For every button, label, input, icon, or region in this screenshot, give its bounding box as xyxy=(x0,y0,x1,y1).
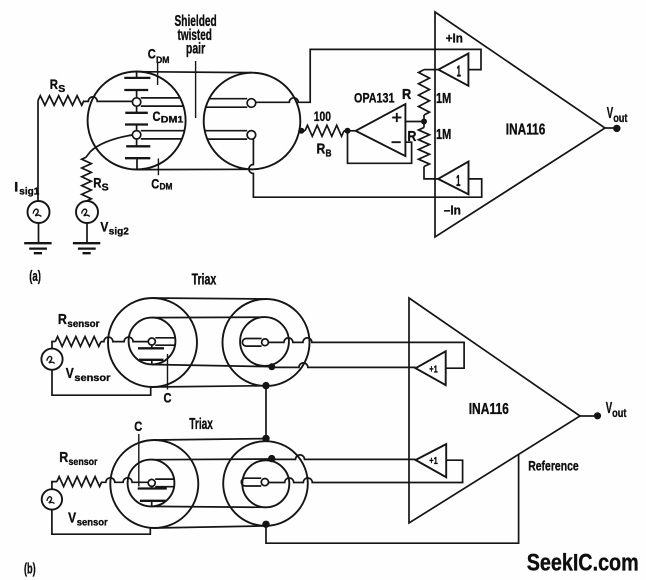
buffer amp +1 (row2) xyxy=(416,444,447,477)
svg-text:OPA131: OPA131 xyxy=(354,90,395,106)
svg-text:1M: 1M xyxy=(436,126,451,143)
svg-text:C: C xyxy=(148,45,156,61)
wire Rsensor into triax (row1) xyxy=(101,337,148,342)
svg-text:+1: +1 xyxy=(429,363,438,375)
feedback wire OPA131 output to - input xyxy=(348,131,412,164)
label CDM top with leader xyxy=(148,45,170,85)
resistor RS (series, top) xyxy=(38,76,84,106)
svg-text:1: 1 xyxy=(456,173,461,190)
op-amp OPA131 xyxy=(354,90,405,156)
capacitor C (row2) xyxy=(138,486,167,506)
ground (Vsig2) xyxy=(73,223,100,253)
Vout node (b) xyxy=(580,400,626,420)
voltage source Vsensor (row2) xyxy=(42,489,108,528)
buffer amp 1 (top) xyxy=(438,54,468,86)
svg-text:R: R xyxy=(59,449,68,466)
capacitor CDM (bottom) xyxy=(125,139,150,169)
svg-text:R: R xyxy=(93,175,101,191)
capacitor C (row1) xyxy=(138,345,164,364)
svg-text:C: C xyxy=(134,418,142,434)
wire Rsensor into triax (row2) xyxy=(102,478,148,483)
svg-text:V: V xyxy=(68,510,76,526)
junction dot outer shield bottom (row1) xyxy=(262,382,269,389)
svg-text:(b): (b) xyxy=(24,562,36,578)
label C with leader (row1) xyxy=(164,354,172,406)
svg-text:out: out xyxy=(613,111,627,125)
triax inner shield circle right (row2) xyxy=(242,460,289,507)
triax outer shield circle right (row1) xyxy=(223,299,310,386)
current source Isig1 xyxy=(14,178,49,223)
svg-text:DM: DM xyxy=(156,55,170,66)
instrumentation amp INA116 (a) xyxy=(435,12,605,237)
junction dot inner shield (row2) xyxy=(268,455,275,462)
triax inner shield circle left (row1) xyxy=(129,318,176,365)
junction dot outer shield top (row2) xyxy=(262,435,269,442)
svg-text:+In: +In xyxy=(446,31,463,46)
buffer amp +1 (row1) xyxy=(416,351,446,385)
svg-text:V: V xyxy=(66,366,74,382)
wire outer shield top tangent (row2) xyxy=(154,439,266,440)
wire conductor2 to -In xyxy=(249,139,482,197)
svg-text:I: I xyxy=(14,178,18,194)
svg-text:1M: 1M xyxy=(436,90,451,107)
conductor 1 left (cylinder) xyxy=(132,98,183,106)
svg-text:DM: DM xyxy=(160,182,173,193)
shield bus wire down xyxy=(265,386,267,439)
wire outer shield top tangent (row1) xyxy=(153,298,267,299)
wire buffer1 output to 1M chain xyxy=(424,69,438,71)
wire conductor1 to +In xyxy=(256,49,481,102)
svg-text:C: C xyxy=(151,175,159,191)
svg-text:SeekIC.com: SeekIC.com xyxy=(527,550,639,577)
shield circle left (cable end 1) xyxy=(88,72,186,170)
svg-text:sig1: sig1 xyxy=(19,187,39,198)
svg-text:(a): (a) xyxy=(29,269,41,285)
svg-text:S: S xyxy=(58,84,65,95)
svg-text:–In: –In xyxy=(444,203,461,218)
wire inner shield top tangent (row1) xyxy=(152,316,265,318)
guard wire to buffer output (row1) xyxy=(272,363,416,367)
ground (Isig1) xyxy=(24,223,51,253)
svg-text:INA116: INA116 xyxy=(469,401,509,418)
reference wire xyxy=(266,454,519,543)
svg-text:100: 100 xyxy=(314,108,331,124)
instrumentation amp INA116 (b) xyxy=(409,298,580,523)
resistor Rsensor (row1) xyxy=(52,311,101,349)
svg-text:B: B xyxy=(326,148,332,159)
cable bottom tangent wire xyxy=(137,168,254,170)
cable top tangent wire xyxy=(137,71,252,74)
label Shielded twisted pair with leader xyxy=(175,13,217,118)
svg-text:V: V xyxy=(100,218,109,234)
wire OPA +input to 1M node xyxy=(405,121,424,123)
wire outer shield bottom tangent (row1) xyxy=(153,386,267,387)
shield circle right (cable end 2) xyxy=(204,73,301,170)
guard wire to buffer output (row2) xyxy=(272,455,416,460)
svg-text:+1: +1 xyxy=(429,455,438,467)
label CDM bottom with leader xyxy=(151,159,172,193)
wire Rs to conductor 1 (enters shield circle) xyxy=(84,97,132,101)
svg-text:R: R xyxy=(58,311,67,328)
triax inner shield circle left (row2) xyxy=(128,460,175,507)
junction dot on shield (RB node) xyxy=(298,128,304,134)
wire inner shield bottom tangent (row2) xyxy=(151,505,266,508)
junction dot outer shield bottom (row2) xyxy=(262,521,269,528)
conductor wire to buffer input (row1) xyxy=(268,338,464,368)
junction dot inner shield (row1) xyxy=(268,363,275,370)
conductor 1 right (cylinder) xyxy=(206,99,256,108)
conductor 2 right (cylinder) xyxy=(205,131,256,140)
wire outer shield bottom tangent (row2) xyxy=(154,526,265,528)
svg-text:INA116: INA116 xyxy=(506,122,546,139)
resistor 1M (bottom) xyxy=(419,122,452,179)
svg-text:R: R xyxy=(50,76,58,92)
resistor 1M (top) xyxy=(419,70,452,122)
svg-text:R: R xyxy=(317,141,326,158)
svg-text:Reference: Reference xyxy=(528,457,579,473)
svg-text:Triax: Triax xyxy=(192,272,217,289)
junction dot 1M node xyxy=(421,119,427,125)
capacitor CDM (top) xyxy=(124,72,150,98)
conductor wire to buffer input (row2) xyxy=(269,460,463,482)
resistor RS (series, 2nd) xyxy=(82,157,109,201)
triax outer shield circle left (row1) xyxy=(108,298,197,387)
resistor Rsensor (row2) xyxy=(52,449,102,489)
wire Rs2 to conductor 2 (curved into shield) xyxy=(86,135,132,157)
center conductor left (row1) xyxy=(148,338,175,345)
svg-text:sensor: sensor xyxy=(67,318,99,330)
resistor RB 100 xyxy=(301,108,347,159)
wire inner shield bottom tangent (row1) xyxy=(152,365,272,367)
wire from Isig1 to Rs xyxy=(37,101,39,202)
wire Vsensor to outer shield (row1) xyxy=(52,370,151,395)
svg-text:S: S xyxy=(102,182,109,193)
conductor 2 left (cylinder) xyxy=(132,131,184,139)
voltage source Vsensor (row1) xyxy=(41,349,110,385)
buffer amp 1 (bottom) xyxy=(438,162,468,195)
triax outer shield circle right (row2) xyxy=(223,441,308,526)
wire output node to OPA apex xyxy=(348,130,356,132)
Vout node (a) xyxy=(605,105,628,132)
svg-text:R: R xyxy=(402,86,411,103)
svg-text:sensor: sensor xyxy=(74,372,110,384)
svg-text:sensor: sensor xyxy=(77,517,108,529)
triax outer shield circle left (row2) xyxy=(110,440,198,528)
svg-text:DM1: DM1 xyxy=(161,115,184,126)
label C with leader (row2) xyxy=(134,418,142,487)
svg-text:sig2: sig2 xyxy=(109,227,129,238)
svg-text:1: 1 xyxy=(457,63,462,80)
wire inner shield top tangent (row2) xyxy=(151,458,272,461)
voltage source Vsig2 xyxy=(76,201,129,238)
svg-text:sensor: sensor xyxy=(69,456,98,468)
svg-text:Triax: Triax xyxy=(189,416,213,433)
center conductor right (row1) xyxy=(242,339,268,347)
svg-text:C: C xyxy=(164,390,172,406)
center conductor right (row2) xyxy=(241,478,268,486)
wire Vsensor to outer shield (row2) xyxy=(52,510,150,535)
svg-text:C: C xyxy=(153,108,161,124)
svg-text:pair: pair xyxy=(186,41,205,58)
capacitor CDM1 (between conductors) xyxy=(125,106,184,130)
junction dot OPA output xyxy=(345,128,351,134)
triax inner shield circle right (row1) xyxy=(240,317,289,366)
svg-text:R: R xyxy=(407,128,416,145)
svg-text:out: out xyxy=(612,406,626,420)
center conductor left (row2) xyxy=(148,479,174,487)
